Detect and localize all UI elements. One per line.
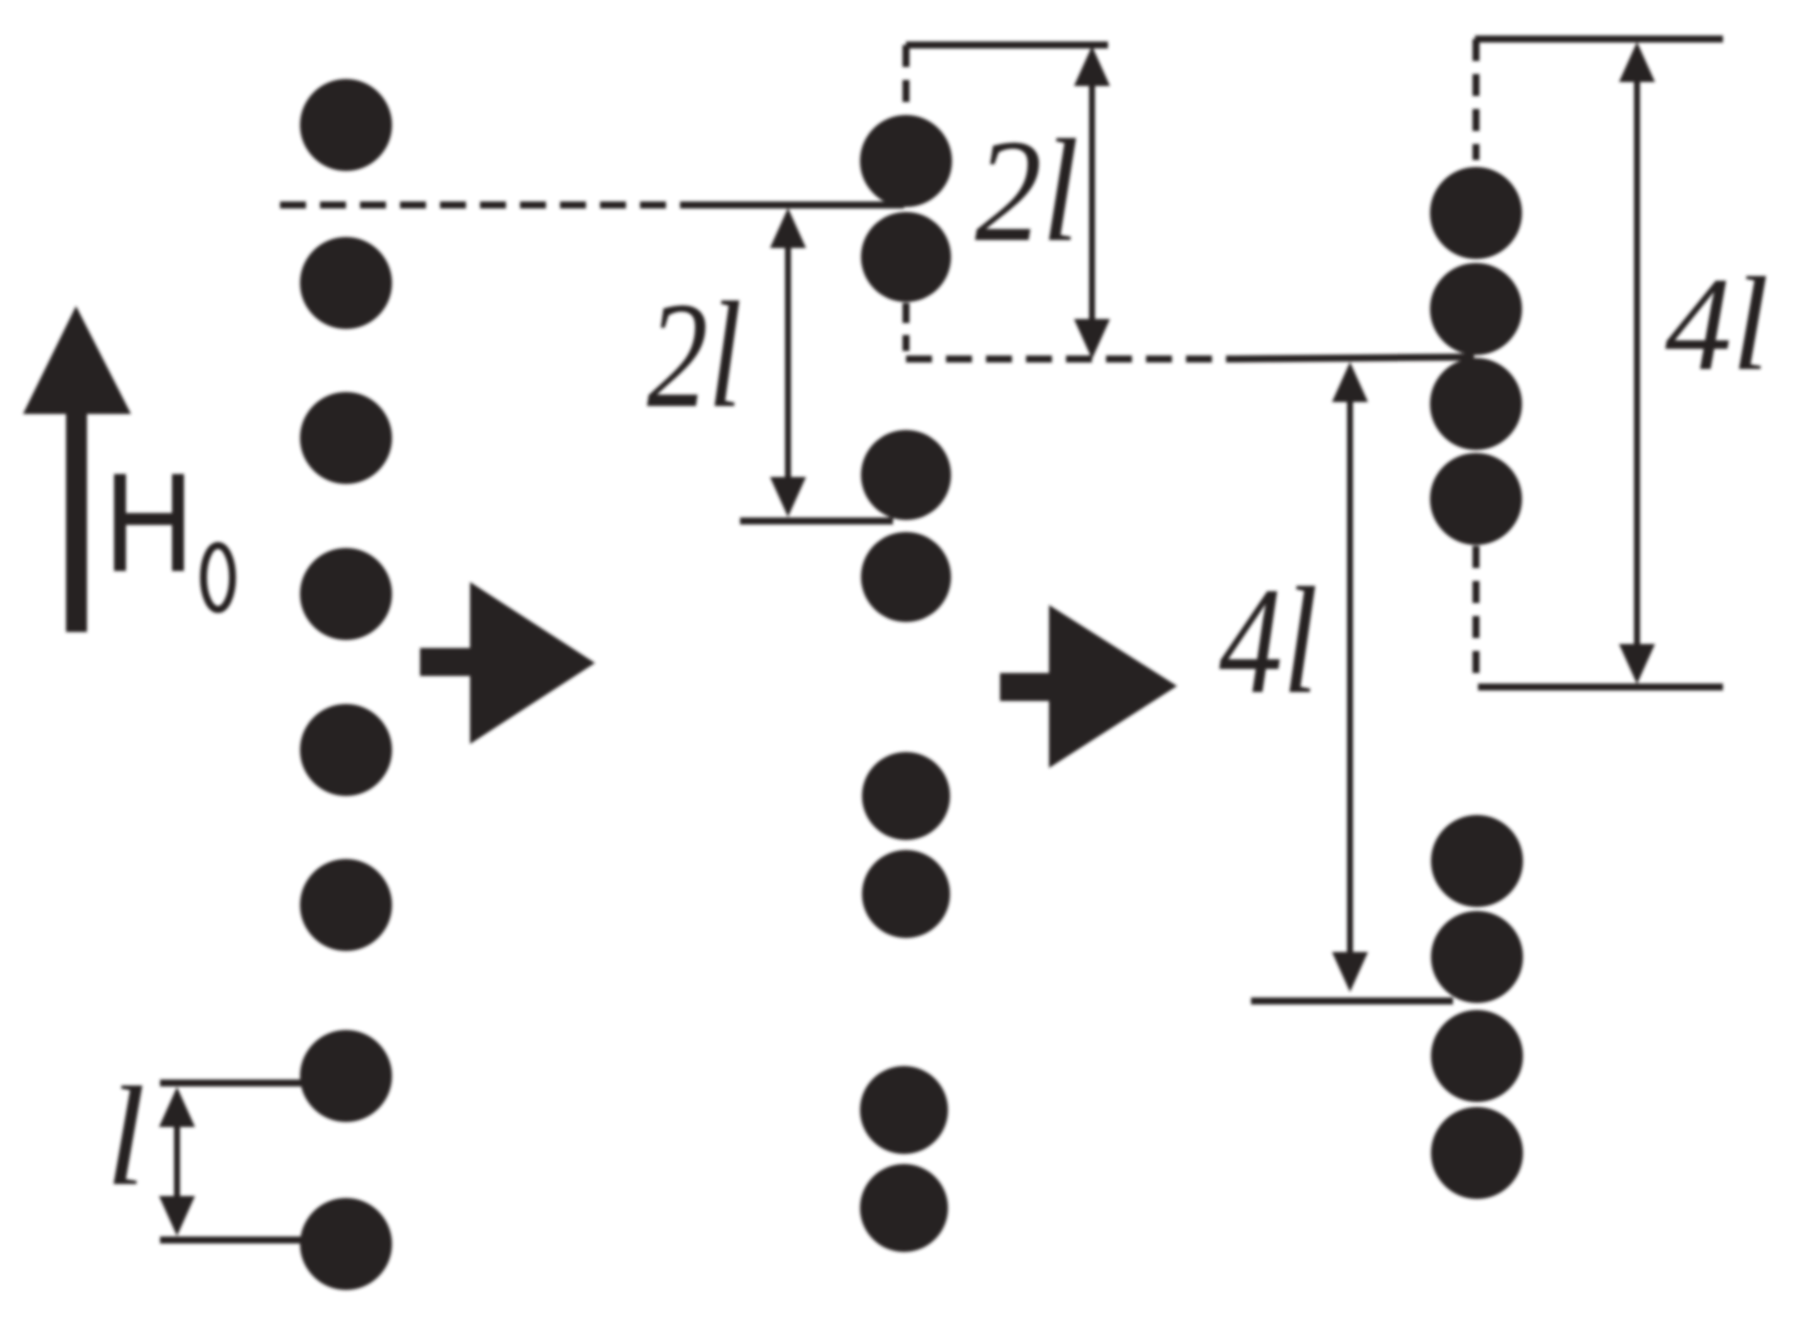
2l right arrowhead up [1074,46,1110,86]
2l right dimension line [1089,60,1095,348]
label H subscript 0 [204,546,233,610]
doublet 2 circle 2 [861,532,951,622]
svg-text:2l: 2l [647,271,742,439]
dashed corner line [906,356,1235,363]
doublet top reference line [906,42,1108,49]
particle column 1 circle 1 [300,79,392,171]
4l right dimension line [1634,55,1640,672]
label H [114,474,184,571]
dashed link quadruplet bottom [1473,546,1480,684]
particle column 1 circle 8 [300,1198,392,1290]
particle column 1 circle 4 [300,548,392,640]
2l right arrowhead down [1074,319,1110,359]
dashed link below doublet 1 [903,303,910,351]
particle column 1 circle 3 [300,392,392,484]
particle column 1 circle 7 [300,1030,392,1122]
2l left arrowhead down [770,477,806,517]
quadruplet 2 circle 4 [1431,1107,1523,1199]
l dimension top line [160,1080,320,1087]
quadruplet 2 circle 1 [1431,815,1523,907]
2l left dimension line [785,218,791,508]
transform arrow 2 head [1049,605,1177,768]
l dimension arrowhead down [159,1196,195,1236]
quadruplet 1 circle 3 [1430,358,1522,450]
long dashed reference line [280,202,690,209]
solid end of reference line [690,202,904,209]
doublet 3 circle 2 [862,850,950,938]
svg-text:4l: 4l [1665,250,1769,398]
quadruplet 1 circle 1 [1430,167,1522,259]
4l middle arrowhead up [1332,362,1368,402]
field arrow H0 shaft [66,408,87,632]
doublet 2 circle 1 [861,430,951,520]
4l right arrowhead up [1619,42,1655,82]
field arrow H0 head [23,306,131,414]
solid continuation to quadruplet [1235,357,1474,359]
4l middle arrowhead down [1332,952,1368,992]
doublet 1 circle 1 [860,115,952,207]
particle column 1 circle 6 [300,859,392,951]
doublet 1 circle 2 [861,212,951,302]
transform arrow 1 head [470,582,595,744]
quadruplet 1 circle 2 [1430,263,1522,355]
transform arrow 2 shaft [1000,673,1049,701]
4l right arrowhead down [1619,644,1655,684]
quadruplet bottom reference line [1478,684,1723,691]
4l middle bottom line [1251,998,1453,1005]
transform arrow 1 shaft [420,648,470,676]
quadruplet 2 circle 2 [1431,911,1523,1003]
dashed link quadruplet top [1473,39,1480,160]
quadruplet 1 circle 4 [1430,453,1522,545]
dashed link top [903,45,910,112]
2l left bottom line [740,518,893,525]
svg-text:2l: 2l [975,109,1079,272]
l dimension arrowhead up [159,1087,195,1127]
doublet 3 circle 1 [862,752,950,840]
particle column 1 circle 2 [300,237,392,329]
doublet 4 circle 1 [860,1066,948,1154]
particle column 1 circle 5 [300,704,392,796]
4l middle dimension line [1347,375,1353,980]
l dimension arrow line [174,1100,180,1225]
l dimension bottom line [160,1237,302,1244]
quadruplet top reference line [1475,36,1723,43]
2l left arrowhead up [770,208,806,248]
svg-text:l: l [106,1057,145,1215]
doublet 4 circle 2 [860,1164,948,1252]
svg-text:4l: 4l [1219,557,1318,726]
quadruplet 2 circle 3 [1431,1010,1523,1102]
